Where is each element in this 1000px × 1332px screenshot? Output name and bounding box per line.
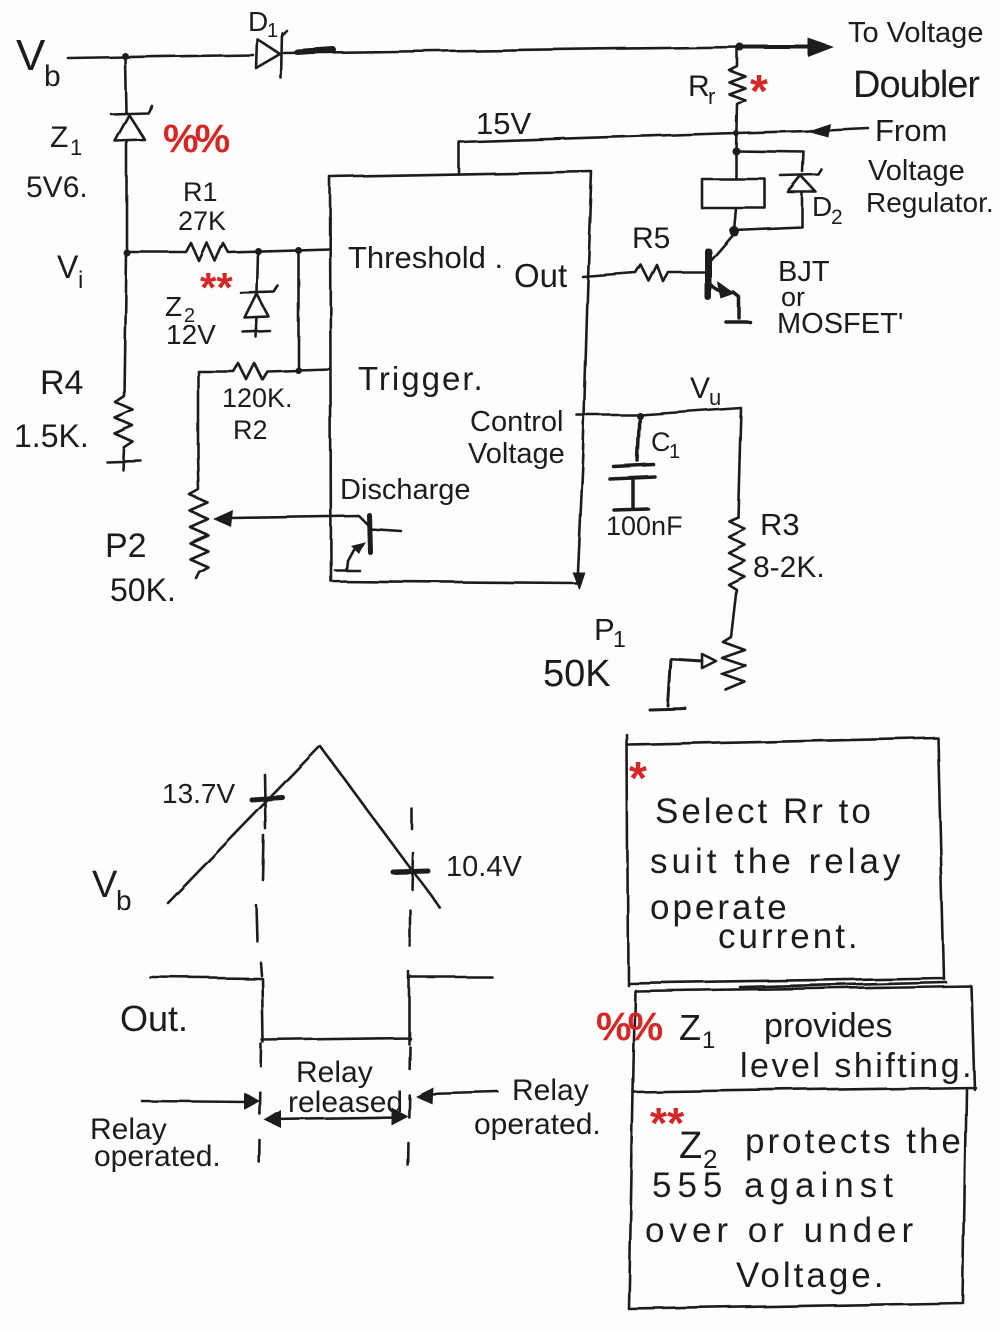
- svg-text:Z: Z: [50, 121, 68, 154]
- svg-text:operated.: operated.: [474, 1108, 601, 1141]
- note box 1 frame: [627, 735, 946, 987]
- tick cross 13.7V: [252, 798, 283, 800]
- svg-text:R2: R2: [233, 415, 268, 445]
- svg-text:suit the relay: suit the relay: [650, 842, 904, 881]
- node junction Z2 tap: [255, 248, 262, 255]
- waveform Out trace: [150, 972, 492, 1044]
- node junction C1 tap: [637, 413, 644, 420]
- diode D2 with wires: [736, 151, 804, 172]
- svg-text:V: V: [57, 249, 79, 285]
- transistor discharge internal: [369, 515, 370, 552]
- svg-text:Out: Out: [514, 257, 567, 294]
- svg-text:Select Rr to: Select Rr to: [655, 792, 874, 831]
- svg-text:Control: Control: [470, 406, 564, 438]
- svg-text:50K: 50K: [543, 653, 611, 695]
- svg-text:V: V: [16, 31, 46, 80]
- svg-text:12V: 12V: [166, 319, 216, 350]
- svg-text:555 against: 555 against: [652, 1166, 899, 1205]
- wire arrow to voltage doubler: [740, 45, 810, 49]
- svg-text:Trigger.: Trigger.: [358, 360, 485, 397]
- svg-text:Z: Z: [679, 1125, 702, 1167]
- svg-text:MOSFET': MOSFET': [777, 308, 903, 340]
- wire trigger tap vertical: [297, 250, 300, 370]
- wire top rail thick retrace after D1: [297, 50, 333, 53]
- svg-text:Relay: Relay: [296, 1056, 373, 1089]
- svg-text:From: From: [875, 113, 947, 148]
- svg-text:5V6.: 5V6.: [26, 171, 88, 204]
- svg-text:8-2K.: 8-2K.: [753, 551, 825, 584]
- svg-text:120K.: 120K.: [222, 383, 293, 413]
- svg-text:Voltage.: Voltage.: [736, 1256, 887, 1295]
- svg-text:Z: Z: [679, 1007, 701, 1048]
- resistor R2 on wire to 555 Trigger pin: [198, 363, 330, 379]
- potentiometer P1 body: [722, 594, 746, 690]
- svg-text:R4: R4: [40, 364, 83, 402]
- svg-text:Z: Z: [165, 291, 182, 322]
- svg-text:D: D: [812, 191, 832, 222]
- svg-text:13.7V: 13.7V: [162, 778, 235, 809]
- svg-text:1: 1: [669, 441, 680, 463]
- resistor Rr: [729, 47, 745, 151]
- node junction Vi: [124, 250, 131, 257]
- svg-text:%%: %%: [163, 117, 230, 161]
- tick cross 10.4V: [393, 871, 428, 872]
- svg-text:*: *: [629, 752, 647, 804]
- note box 2 frame: [633, 986, 975, 1092]
- svg-text:current.: current.: [718, 917, 861, 956]
- arrow relay operated left: [142, 1101, 250, 1102]
- svg-text:Voltage: Voltage: [468, 438, 565, 470]
- ground under Q1: [726, 320, 750, 324]
- diode D1: [256, 39, 280, 68]
- wire Vb junction down to Z1: [125, 58, 126, 113]
- svg-text:Out.: Out.: [120, 998, 188, 1039]
- svg-text:C: C: [651, 427, 671, 457]
- svg-text:To Voltage: To Voltage: [848, 17, 983, 49]
- svg-text:Discharge: Discharge: [340, 474, 471, 506]
- svg-text:b: b: [116, 885, 132, 916]
- svg-text:1: 1: [613, 626, 626, 652]
- svg-text:*: *: [750, 65, 768, 117]
- svg-text:1: 1: [702, 1027, 715, 1054]
- node junction relay top: [732, 147, 740, 155]
- svg-text:**: **: [200, 264, 233, 311]
- svg-text:Threshold .: Threshold .: [348, 240, 503, 275]
- potentiometer P2 body: [190, 372, 208, 578]
- potentiometer P1 wiper arrow: [702, 654, 716, 668]
- svg-text:R: R: [688, 70, 710, 103]
- zener Z1: [111, 106, 152, 114]
- svg-text:R5: R5: [632, 222, 670, 255]
- svg-text:1: 1: [267, 20, 278, 42]
- svg-text:%%: %%: [596, 1005, 663, 1049]
- resistor R1 with wire to 555 Threshold pin: [127, 243, 330, 261]
- svg-text:protects the: protects the: [745, 1122, 964, 1161]
- note box 3 frame: [629, 1089, 966, 1309]
- node junction top rail Rr: [736, 43, 744, 51]
- svg-text:released: released: [288, 1086, 403, 1119]
- svg-text:R1: R1: [183, 177, 218, 207]
- ground at P1 wiper: [650, 709, 686, 710]
- svg-text:D: D: [248, 6, 268, 37]
- svg-text:i: i: [78, 267, 83, 294]
- svg-text:Regulator.: Regulator.: [866, 187, 994, 218]
- svg-text:over or under: over or under: [645, 1211, 918, 1250]
- node junction 15V crossing: [733, 130, 739, 136]
- op-amp style box 555 timer U1: [330, 172, 592, 583]
- svg-text:2: 2: [831, 206, 843, 229]
- wire 15V from voltage regulator: [459, 131, 810, 174]
- svg-text:100nF: 100nF: [606, 511, 683, 541]
- resistor R5 on wire from Out pin: [583, 265, 706, 281]
- node junction relay bottom / collector: [729, 226, 739, 236]
- wire Z1 anode down to node Vi: [126, 141, 129, 252]
- arrow on 555 bottom right corner: [572, 572, 585, 590]
- svg-text:1: 1: [70, 135, 82, 160]
- resistor R3: [729, 517, 745, 594]
- svg-text:r: r: [708, 84, 715, 109]
- capacitor C1: [610, 416, 655, 510]
- node junction Vb rail / Z1: [122, 53, 129, 60]
- svg-text:b: b: [44, 60, 61, 93]
- transistor Q1 BJT: [705, 251, 712, 297]
- relay coil K1: [702, 179, 765, 208]
- wire relay branch vertical: [734, 151, 736, 231]
- svg-text:u: u: [709, 385, 721, 410]
- dashed line left threshold: [256, 836, 264, 975]
- node junction trigger wire: [295, 367, 302, 374]
- svg-text:P2: P2: [105, 527, 147, 565]
- svg-text:Doubler: Doubler: [853, 64, 980, 106]
- svg-text:provides: provides: [764, 1007, 893, 1045]
- svg-text:10.4V: 10.4V: [446, 851, 522, 883]
- svg-text:50K.: 50K.: [110, 572, 176, 608]
- potentiometer P2 wiper arrow to discharge: [213, 510, 233, 527]
- svg-text:Relay: Relay: [512, 1074, 589, 1107]
- resistor R4 with end bar: [107, 252, 141, 470]
- node junction trigger tap: [295, 247, 302, 254]
- wire top rail from Vb to D1: [68, 55, 253, 58]
- arrow double headed relay released span: [270, 1117, 402, 1119]
- svg-text:1.5K.: 1.5K.: [14, 418, 89, 454]
- svg-text:P: P: [594, 612, 615, 647]
- svg-text:V: V: [690, 372, 710, 405]
- svg-text:operated.: operated.: [94, 1140, 221, 1173]
- wire control voltage pin to R3: [577, 408, 741, 517]
- svg-text:27K: 27K: [178, 206, 226, 236]
- svg-text:R3: R3: [760, 507, 800, 542]
- svg-text:15V: 15V: [476, 106, 531, 141]
- svg-text:V: V: [92, 864, 118, 906]
- zener Z2: [257, 252, 258, 292]
- waveform Vb triangle: [168, 746, 440, 908]
- wire top rail from D1 to Rr junction: [284, 47, 740, 53]
- arrow relay operated right: [428, 1092, 498, 1094]
- dashed line right threshold: [410, 809, 412, 946]
- svg-text:Voltage: Voltage: [868, 155, 965, 187]
- svg-text:level shifting.: level shifting.: [740, 1047, 974, 1085]
